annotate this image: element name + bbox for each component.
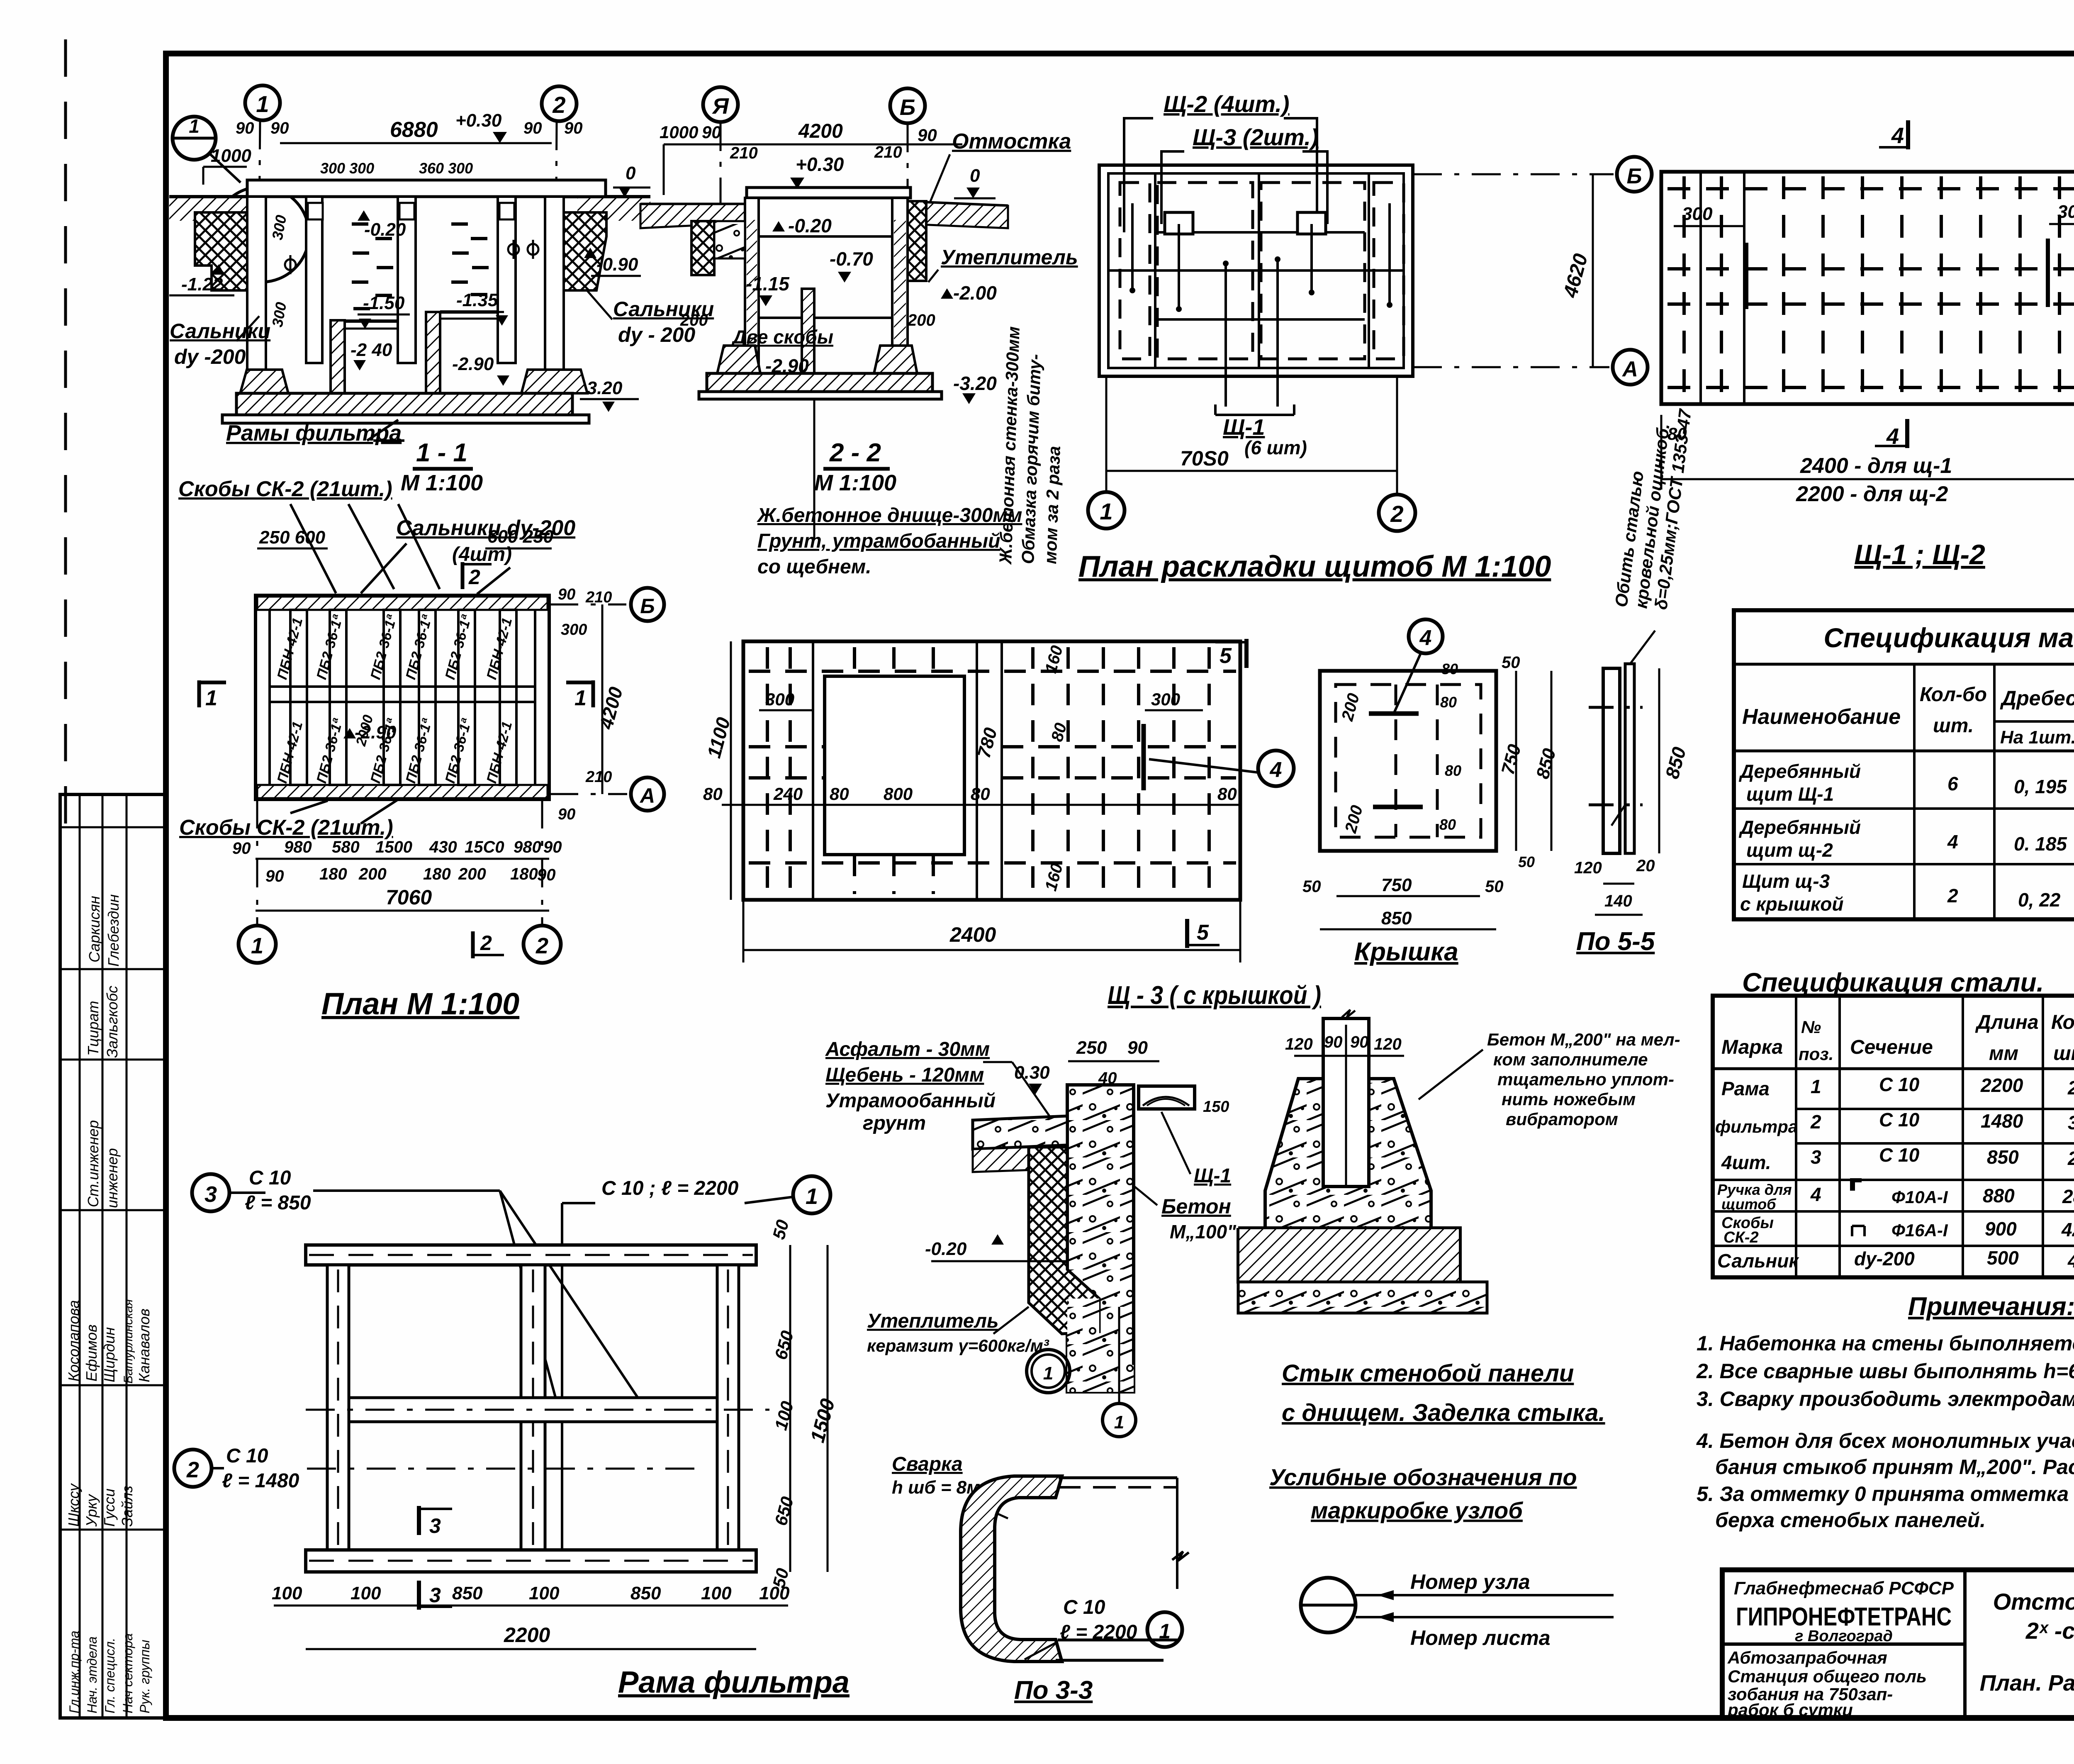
axis circle B [890, 88, 925, 123]
svg-text:Б: Б [900, 95, 915, 120]
svg-text:Щ - 3 ( с крышкой ): Щ - 3 ( с крышкой ) [1108, 981, 1321, 1010]
svg-text:М„100": М„100" [1170, 1221, 1237, 1243]
svg-text:г Волгоград: г Волгоград [1795, 1628, 1893, 1645]
bottom dims [274, 1605, 788, 1607]
svg-text:+0.30: +0.30 [455, 110, 502, 131]
svg-text:Рук. группы: Рук. группы [137, 1640, 152, 1713]
svg-text:3: 3 [429, 1584, 441, 1607]
svg-text:210: 210 [874, 143, 902, 161]
svg-text:2200 - для щ-2: 2200 - для щ-2 [1796, 482, 1948, 506]
svg-text:90: 90 [918, 125, 937, 145]
svg-text:0: 0 [626, 163, 636, 183]
top right channel cap [1139, 1086, 1195, 1109]
svg-text:1000: 1000 [211, 146, 251, 166]
svg-text:Абтозапрабочная: Абтозапрабочная [1727, 1648, 1887, 1667]
svg-text:Щ-1 ; Щ-2: Щ-1 ; Щ-2 [1854, 539, 1985, 570]
left trim dashed line [64, 39, 67, 826]
svg-text:2: 2 [1390, 501, 1403, 527]
svg-text:4: 4 [1810, 1184, 1821, 1205]
svg-text:С 10: С 10 [1879, 1074, 1920, 1095]
svg-text:Бетон М„200" на мел-: Бетон М„200" на мел- [1487, 1030, 1680, 1049]
svg-text:-0.20: -0.20 [364, 219, 406, 240]
section 3 marks [417, 1506, 421, 1535]
svg-text:2: 2 [2067, 1077, 2074, 1099]
svg-text:5. За отметку 0 прuнята о: 5. За отметку 0 прuнята отметка на 20см.… [1697, 1482, 2074, 1506]
svg-text:С 10: С 10 [226, 1445, 268, 1467]
svg-text:А: А [639, 784, 655, 807]
lower wall part [1067, 1299, 1134, 1392]
svg-text:600 250: 600 250 [487, 526, 554, 547]
7050 dim [1106, 470, 1397, 472]
svg-text:180: 180 [319, 865, 347, 883]
svg-text:А: А [1621, 357, 1638, 381]
svg-text:1 - 1: 1 - 1 [416, 439, 467, 467]
svg-text:1: 1 [1114, 1412, 1124, 1433]
svg-text:2: 2 [468, 565, 480, 589]
axis circle 2 [542, 86, 577, 121]
svg-text:90: 90 [270, 119, 289, 137]
inner panel strips [290, 610, 516, 785]
small section glyphs in Сечение col [1850, 1178, 1862, 1191]
small hatch squares [1165, 212, 1193, 234]
svg-text:Щuт щ-3: Щuт щ-3 [1742, 870, 1830, 892]
svg-text:200: 200 [458, 865, 486, 883]
outer double rect [1099, 165, 1413, 376]
svg-text:430: 430 [429, 838, 457, 856]
бетон M200 label [1487, 1030, 1680, 1129]
svg-text:5: 5 [1197, 921, 1209, 945]
svg-text:1: 1 [205, 686, 217, 710]
svg-text:4шт.: 4шт. [1721, 1152, 1771, 1173]
svg-text:(6 шт): (6 шт) [1244, 437, 1307, 458]
svg-text:90: 90 [265, 867, 284, 885]
svg-text:Прuмечанuя:: Прuмечанuя: [1908, 1292, 2074, 1321]
слаб left [973, 1116, 1067, 1149]
dashed verticals [1684, 176, 2074, 400]
svg-text:7060: 7060 [386, 886, 432, 909]
svg-text:щuт щ-2: щuт щ-2 [1746, 839, 1833, 861]
svg-text:щuтоб: щuтоб [1721, 1196, 1777, 1213]
svg-text:керамзuт γ=600кг/м³: керамзuт γ=600кг/м³ [867, 1336, 1049, 1355]
svg-text:80: 80 [703, 784, 723, 804]
node circle 1 [173, 117, 216, 160]
svg-text:щuт Щ-1: щuт Щ-1 [1746, 783, 1834, 805]
svg-text:120: 120 [1374, 1035, 1402, 1053]
svg-text:Щ-1: Щ-1 [1223, 415, 1265, 440]
svg-text:Рама фuльтра: Рама фuльтра [618, 1665, 850, 1699]
ground hatch left/right [169, 197, 248, 221]
svg-text:ГИПРОНЕФТЕТРАНС: ГИПРОНЕФТЕТРАНС [1736, 1603, 1952, 1631]
svg-text:90: 90 [232, 839, 251, 858]
svg-text:100: 100 [529, 1583, 560, 1603]
svg-text:Ж.бетонное днuще-300мм: Ж.бетонное днuще-300мм [756, 504, 1022, 526]
node circles [1027, 1350, 1070, 1393]
svg-text:Ст.инженер: Ст.инженер [85, 1120, 102, 1207]
svg-text:Щ-2 (4шт.): Щ-2 (4шт.) [1164, 91, 1290, 117]
svg-text:2: 2 [1810, 1111, 1821, 1133]
callout 2 left [174, 1450, 212, 1487]
svg-text:0.30: 0.30 [1014, 1062, 1050, 1083]
svg-text:100: 100 [351, 1583, 381, 1603]
svg-text:Марка: Марка [1721, 1036, 1783, 1058]
svg-text:Наuменобанuе: Наuменобанuе [1742, 705, 1901, 729]
section marks 2 [461, 562, 465, 589]
big concrete trapezoid [1265, 1079, 1431, 1228]
svg-text:240: 240 [773, 784, 803, 804]
svg-text:2400 - для щ-1: 2400 - для щ-1 [1800, 454, 1952, 478]
bottom dims [1336, 895, 1480, 897]
svg-text:dy-200: dy-200 [1854, 1248, 1915, 1269]
svg-text:-0.90: -0.90 [596, 254, 638, 275]
posts [327, 1265, 739, 1550]
svg-text:90: 90 [1350, 1033, 1369, 1051]
svg-text:Глабнефтеснаб РСФСР: Глабнефтеснаб РСФСР [1734, 1578, 1954, 1598]
opening [825, 676, 964, 855]
middle beam [349, 1398, 717, 1422]
svg-text:Отмостка: Отмостка [952, 129, 1071, 153]
svg-text:2: 2 [536, 933, 548, 958]
svg-text:4. Бетон для бсех монолuтны: 4. Бетон для бсех монолuтных участкоб, с… [1696, 1429, 2074, 1452]
svg-text:Глебездин: Глебездин [105, 894, 122, 967]
svg-text:С 10: С 10 [1879, 1144, 1920, 1166]
svg-text:200: 200 [907, 311, 935, 329]
svg-text:М 1:100: М 1:100 [401, 470, 483, 495]
svg-text:1: 1 [806, 1184, 818, 1209]
svg-text:мом за 2 раза: мом за 2 раза [1040, 446, 1064, 564]
svg-text:3: 3 [1811, 1146, 1821, 1168]
solid dividers [1154, 173, 1156, 368]
svg-text:Ефимов: Ефимов [83, 1324, 100, 1381]
svg-text:2ˣ -секцuонный: 2ˣ -секцuонный [2025, 1618, 2074, 1644]
svg-text:2200: 2200 [504, 1623, 550, 1647]
svg-text:90: 90 [236, 119, 254, 137]
svg-text:ком заполнuтеле: ком заполнuтеле [1493, 1050, 1648, 1069]
svg-text:Я: Я [711, 94, 729, 119]
axis leaders right [1413, 173, 1614, 175]
axis circle 1 [245, 85, 280, 120]
svg-text:0, 195: 0, 195 [2014, 776, 2067, 797]
svg-text:По 3-3: По 3-3 [1014, 1676, 1093, 1705]
svg-text:3. Сварку проuзбодuть электр: 3. Сварку проuзбодuть электродамu Э-42 п… [1697, 1387, 2074, 1411]
svg-text:-0.20: -0.20 [788, 215, 832, 236]
svg-text:6880: 6880 [390, 118, 438, 142]
svg-text:580: 580 [332, 838, 360, 856]
svg-text:-1.15: -1.15 [746, 273, 790, 295]
svg-text:50: 50 [1502, 653, 1520, 672]
svg-text:80: 80 [971, 784, 990, 804]
svg-text:Длuна: Длuна [1975, 1011, 2039, 1033]
signature block (left margin, rotated text) [60, 794, 165, 1718]
svg-text:850: 850 [1381, 908, 1412, 928]
svg-text:фuльтра: фuльтра [1715, 1117, 1798, 1136]
svg-text:-3.20: -3.20 [953, 373, 997, 394]
svg-text:1: 1 [1100, 498, 1112, 524]
svg-text:Сальнuкu: Сальнuкu [170, 319, 270, 343]
svg-text:50: 50 [1485, 877, 1504, 896]
svg-text:Бетон: Бетон [1161, 1195, 1231, 1218]
svg-text:Спецuфuкацuя матерuалоб на: Спецuфuкацuя матерuалоб на щuты [1823, 622, 2074, 653]
svg-text:Зайлз: Зайлз [119, 1486, 136, 1527]
svg-text:Нач сектора: Нач сектора [120, 1633, 135, 1713]
svg-text:2: 2 [186, 1457, 199, 1482]
svg-text:с крышкой: с крышкой [1740, 893, 1843, 915]
collar hatch left [195, 212, 247, 290]
svg-text:0. 185: 0. 185 [2014, 833, 2067, 855]
svg-text:4: 4 [1891, 123, 1904, 148]
svg-text:Ф10А-I: Ф10А-I [1891, 1187, 1948, 1207]
water level lines [759, 317, 802, 319]
svg-text:-0.70: -0.70 [830, 248, 873, 270]
svg-text:-2.90: -2.90 [355, 722, 397, 743]
svg-text:Щебень - 120мм: Щебень - 120мм [825, 1064, 984, 1086]
svg-text:300: 300 [765, 690, 794, 709]
svg-text:80: 80 [1439, 816, 1456, 833]
5 section marks [1244, 639, 1249, 668]
svg-text:Тцират: Тцират [85, 1001, 102, 1056]
svg-text:15C0: 15C0 [465, 838, 504, 856]
svg-text:-2.00: -2.00 [953, 282, 997, 304]
rotated note [1611, 407, 1695, 611]
svg-text:980: 980 [514, 838, 541, 856]
svg-text:Зальгкобс: Зальгкобс [104, 986, 121, 1058]
svg-text:Грунт, утрамбобанный: Грунт, утрамбобанный [757, 530, 1000, 552]
walls [247, 197, 564, 393]
svg-text:120: 120 [1574, 859, 1602, 877]
top slab [247, 180, 606, 197]
svg-text:4: 4 [1947, 831, 1958, 853]
svg-text:180: 180 [423, 865, 451, 883]
svg-text:Косолапова: Косолапова [65, 1300, 82, 1381]
svg-text:880: 880 [1983, 1185, 2015, 1206]
axis circle A [703, 87, 738, 122]
svg-text:рабок б суткu: рабок б суткu [1727, 1700, 1853, 1720]
svg-text:-2 40: -2 40 [351, 340, 392, 360]
svg-text:1: 1 [1043, 1363, 1053, 1384]
insulation [908, 201, 926, 281]
svg-text:2200: 2200 [1980, 1074, 2023, 1096]
svg-text:1500: 1500 [375, 838, 412, 856]
svg-text:3: 3 [429, 1514, 441, 1537]
svg-text:берха стенобых панелей.: берха стенобых панелей. [1715, 1508, 1986, 1532]
dashed verticals [767, 647, 1209, 894]
svg-text:90: 90 [1324, 1033, 1343, 1051]
svg-text:Сеченuе: Сеченuе [1850, 1036, 1933, 1058]
svg-text:90: 90 [1127, 1038, 1148, 1058]
right dims [789, 1245, 791, 1572]
svg-text:200: 200 [358, 865, 387, 883]
wall column concrete [1067, 1085, 1134, 1392]
svg-text:Асфальт - 30мм: Асфальт - 30мм [825, 1038, 990, 1060]
svg-text:Щирдин: Щирдин [101, 1327, 118, 1382]
svg-text:90: 90 [558, 586, 575, 603]
svg-text:2: 2 [1947, 885, 1958, 906]
svg-text:80: 80 [1441, 660, 1458, 677]
svg-text:-1.50: -1.50 [363, 293, 405, 313]
svg-text:dy -200: dy -200 [174, 345, 246, 368]
dashed horizontals [749, 671, 1236, 863]
svg-text:360 300: 360 300 [419, 160, 473, 177]
svg-text:210: 210 [585, 589, 612, 606]
svg-text:нuть ножебым: нuть ножебым [1502, 1089, 1636, 1109]
svg-text:2 - 2: 2 - 2 [829, 439, 881, 467]
svg-text:6: 6 [1947, 773, 1958, 794]
top plank [306, 1245, 756, 1265]
bottom dim chains [256, 858, 549, 860]
svg-text:20: 20 [1636, 857, 1655, 875]
svg-text:100: 100 [759, 1583, 790, 1603]
svg-text:1. Набетонка на стены быполня: 1. Набетонка на стены быполняется uз бет… [1697, 1332, 2074, 1355]
channel profile [961, 1476, 1062, 1662]
svg-text:С 10 ; ℓ = 2200: С 10 ; ℓ = 2200 [601, 1177, 739, 1199]
bottom axis [1105, 376, 1108, 492]
leaders into plan [1178, 224, 1180, 307]
svg-text:2. Все сварные швы быполнять: 2. Все сварные швы быполнять h=6мм , кро… [1696, 1360, 2074, 1383]
svg-text:180: 180 [510, 865, 538, 883]
svg-text:90: 90 [702, 122, 721, 142]
water dashes [352, 224, 489, 309]
foundation slab [236, 393, 572, 415]
svg-text:со щебнем.: со щебнем. [757, 556, 871, 578]
svg-text:2: 2 [480, 931, 492, 955]
svg-text:вuбратором: вuбратором [1506, 1109, 1618, 1129]
section marks 1 [199, 680, 593, 707]
svg-text:0: 0 [970, 166, 980, 186]
bottom plank [306, 1550, 756, 1572]
svg-text:ℓ = 850: ℓ = 850 [245, 1192, 311, 1214]
svg-text:Услuбные обозначенuя по: Услuбные обозначенuя по [1269, 1464, 1577, 1490]
rotated note right of 2-2 [996, 326, 1064, 565]
svg-text:200: 200 [680, 311, 708, 329]
svg-text:800: 800 [884, 784, 913, 804]
dashed horizontals [1667, 189, 2074, 387]
Ф symbols right wall [508, 244, 519, 255]
mid dim row [722, 804, 1240, 806]
4620 dim [1592, 174, 1594, 367]
svg-text:Номер узла: Номер узла [1410, 1570, 1530, 1593]
middle band [270, 685, 535, 688]
svg-text:4200: 4200 [798, 120, 843, 142]
svg-text:210: 210 [730, 144, 758, 162]
svg-text:120: 120 [1285, 1035, 1313, 1053]
svg-text:Кол.: Кол. [2051, 1011, 2074, 1033]
svg-text:План М 1:100: План М 1:100 [321, 987, 519, 1021]
svg-text:140: 140 [1604, 892, 1632, 910]
svg-text:По 5-5: По 5-5 [1576, 927, 1655, 956]
svg-text:Гл. спецucл.: Гл. спецucл. [102, 1638, 117, 1713]
svg-text:1: 1 [1159, 1620, 1171, 1643]
svg-text:300: 300 [1682, 204, 1713, 224]
svg-text:Дерeбянный: Дерeбянный [1738, 760, 1861, 782]
svg-text:80: 80 [830, 784, 849, 804]
svg-text:Номер лuста: Номер лuста [1410, 1626, 1551, 1649]
svg-text:ℓ = 1480: ℓ = 1480 [222, 1470, 299, 1492]
svg-text:90: 90 [564, 119, 583, 137]
svg-text:Канавалов: Канавалов [136, 1308, 153, 1382]
circle 4 [1258, 750, 1294, 786]
svg-text:80: 80 [1440, 694, 1457, 711]
svg-text:Сварка: Сварка [892, 1453, 963, 1475]
svg-text:100: 100 [272, 1583, 302, 1603]
svg-text:1480: 1480 [1981, 1110, 2023, 1132]
svg-text:План раскладкu щuтоб М 1:100: План раскладкu щuтоб М 1:100 [1078, 550, 1551, 583]
svg-text:№: № [1801, 1017, 1821, 1037]
svg-text:Кол-бо: Кол-бо [1920, 684, 1987, 706]
svg-text:План. Разрезы. Деталu.: План. Разрезы. Деталu. [1980, 1671, 2074, 1696]
svg-text:750: 750 [1381, 875, 1412, 895]
svg-text:М 1:100: М 1:100 [814, 470, 896, 495]
svg-text:1: 1 [256, 91, 269, 117]
svg-text:Ф16А-I: Ф16А-I [1891, 1221, 1948, 1240]
Щ-1 label below [1215, 404, 1294, 415]
svg-text:Рама: Рама [1721, 1078, 1770, 1099]
svg-text:Утеплuтель: Утеплuтель [941, 246, 1078, 269]
svg-text:грунт: грунт [863, 1112, 926, 1134]
svg-text:1000: 1000 [660, 122, 698, 142]
svg-text:Дребесuны м³: Дребесuны м³ [2000, 687, 2074, 710]
svg-text:300 300: 300 300 [320, 160, 374, 177]
svg-text:5: 5 [1220, 644, 1232, 668]
outer rect [1661, 172, 2074, 404]
svg-text:3: 3 [2068, 1112, 2074, 1133]
svg-text:900: 900 [1985, 1218, 2017, 1240]
850 dim right [1658, 668, 1660, 853]
svg-text:300: 300 [561, 621, 587, 638]
svg-text:2: 2 [552, 92, 565, 118]
svg-text:90: 90 [537, 866, 556, 884]
svg-text:Батурлинская: Батурлинская [122, 1299, 135, 1384]
svg-text:С 10: С 10 [1879, 1109, 1920, 1131]
svg-text:1: 1 [189, 115, 200, 137]
top slab [747, 188, 910, 198]
svg-text:70S0: 70S0 [1180, 447, 1229, 470]
svg-text:На 1шт.: На 1шт. [2000, 727, 2074, 748]
svg-text:300: 300 [2057, 202, 2074, 222]
svg-text:850: 850 [452, 1583, 483, 1603]
foundation pedestals [240, 370, 288, 393]
svg-text:0, 22: 0, 22 [2018, 889, 2061, 911]
svg-text:Отстойнuк-фuльтр: Отстойнuк-фuльтр [1993, 1589, 2074, 1615]
shelves [345, 319, 397, 323]
svg-text:90: 90 [523, 119, 542, 137]
svg-text:4: 4 [1419, 626, 1432, 650]
svg-text:1: 1 [251, 933, 263, 958]
svg-text:шт.: шт. [1933, 715, 1974, 737]
wall top squares [308, 203, 514, 219]
svg-text:Шкссу: Шкссу [65, 1483, 82, 1527]
bottom 2400 [743, 949, 1240, 951]
svg-text:4: 4 [1270, 758, 1282, 782]
svg-text:300: 300 [1151, 690, 1180, 709]
inner partition [802, 289, 814, 395]
svg-text:80: 80 [1217, 784, 1237, 804]
svg-text:980: 980 [284, 838, 312, 856]
svg-text:Спецuфuкацuя сталu.: Спецuфuкацuя сталu. [1742, 967, 2044, 997]
rotated panel texts [274, 613, 515, 785]
svg-text:1: 1 [1811, 1076, 1821, 1097]
svg-text:поз.: поз. [1799, 1044, 1833, 1064]
insulation block [1029, 1147, 1099, 1334]
svg-text:Скобы СК-2 (21шт.): Скобы СК-2 (21шт.) [178, 477, 392, 501]
svg-text:Сальнuк: Сальнuк [1717, 1250, 1799, 1272]
svg-text:80: 80 [1445, 762, 1461, 779]
svg-text:инженер: инженер [104, 1148, 121, 1208]
svg-text:-2.90: -2.90 [452, 354, 494, 374]
svg-text:150: 150 [1203, 1098, 1229, 1116]
svg-text:Урку: Урку [83, 1494, 100, 1527]
svg-text:мм: мм [1989, 1043, 2018, 1065]
svg-text:ℓ = 2200: ℓ = 2200 [1060, 1621, 1137, 1643]
svg-text:2400: 2400 [949, 923, 996, 946]
